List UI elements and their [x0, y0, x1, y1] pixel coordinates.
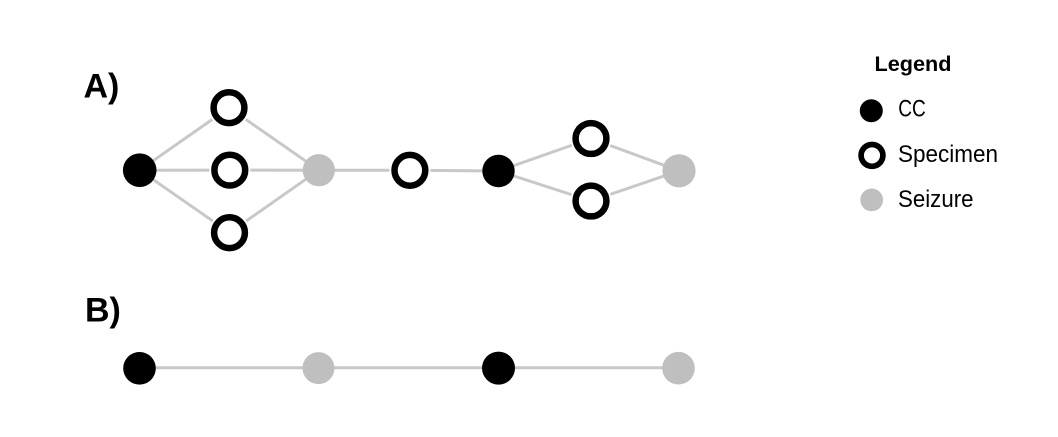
- svg-text:Seizure: Seizure: [898, 186, 974, 213]
- svg-text:Legend: Legend: [875, 53, 952, 76]
- svg-text:CC: CC: [898, 96, 926, 123]
- svg-text:B): B): [85, 292, 121, 330]
- svg-text:Specimen: Specimen: [898, 141, 998, 168]
- svg-text:A): A): [84, 67, 120, 105]
